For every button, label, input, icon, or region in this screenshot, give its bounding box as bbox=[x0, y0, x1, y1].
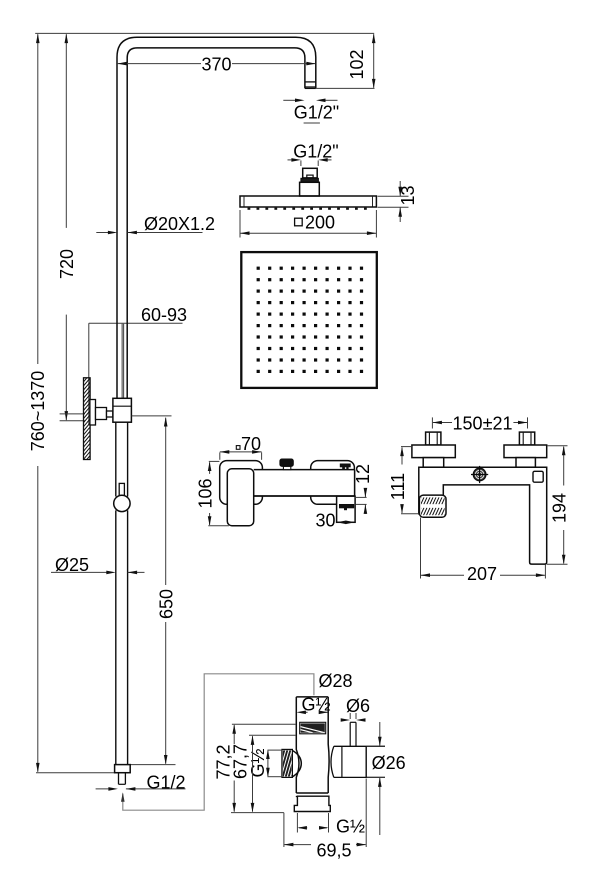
svg-text:G1/2: G1/2 bbox=[146, 773, 185, 793]
svg-text:Ø20X1.2: Ø20X1.2 bbox=[144, 214, 215, 234]
svg-text:150±21: 150±21 bbox=[453, 414, 513, 434]
svg-text:102: 102 bbox=[347, 49, 367, 79]
svg-text:G½: G½ bbox=[248, 748, 268, 777]
svg-text:G½: G½ bbox=[336, 817, 365, 837]
svg-text:720: 720 bbox=[57, 249, 77, 279]
svg-text:194: 194 bbox=[550, 493, 570, 523]
svg-text:111: 111 bbox=[388, 473, 408, 500]
svg-text:207: 207 bbox=[467, 564, 497, 584]
svg-text:G1/2": G1/2" bbox=[294, 103, 339, 123]
svg-text:200: 200 bbox=[305, 212, 335, 232]
svg-text:Ø28: Ø28 bbox=[318, 671, 352, 691]
svg-text:70: 70 bbox=[241, 434, 261, 454]
svg-text:G½: G½ bbox=[301, 695, 330, 715]
svg-text:Ø26: Ø26 bbox=[372, 753, 406, 773]
svg-text:G1/2": G1/2" bbox=[293, 142, 338, 162]
svg-text:370: 370 bbox=[201, 55, 231, 75]
svg-text:760~1370: 760~1370 bbox=[28, 371, 48, 452]
svg-text:69,5: 69,5 bbox=[316, 841, 351, 861]
svg-text:Ø25: Ø25 bbox=[55, 555, 89, 575]
svg-text:13: 13 bbox=[398, 185, 418, 205]
svg-text:Ø6: Ø6 bbox=[346, 696, 370, 716]
svg-text:650: 650 bbox=[157, 589, 177, 619]
svg-text:30: 30 bbox=[315, 511, 335, 531]
svg-text:12: 12 bbox=[353, 464, 373, 484]
svg-text:106: 106 bbox=[196, 478, 216, 508]
svg-text:60-93: 60-93 bbox=[141, 305, 187, 325]
svg-text:67,7: 67,7 bbox=[231, 744, 251, 779]
